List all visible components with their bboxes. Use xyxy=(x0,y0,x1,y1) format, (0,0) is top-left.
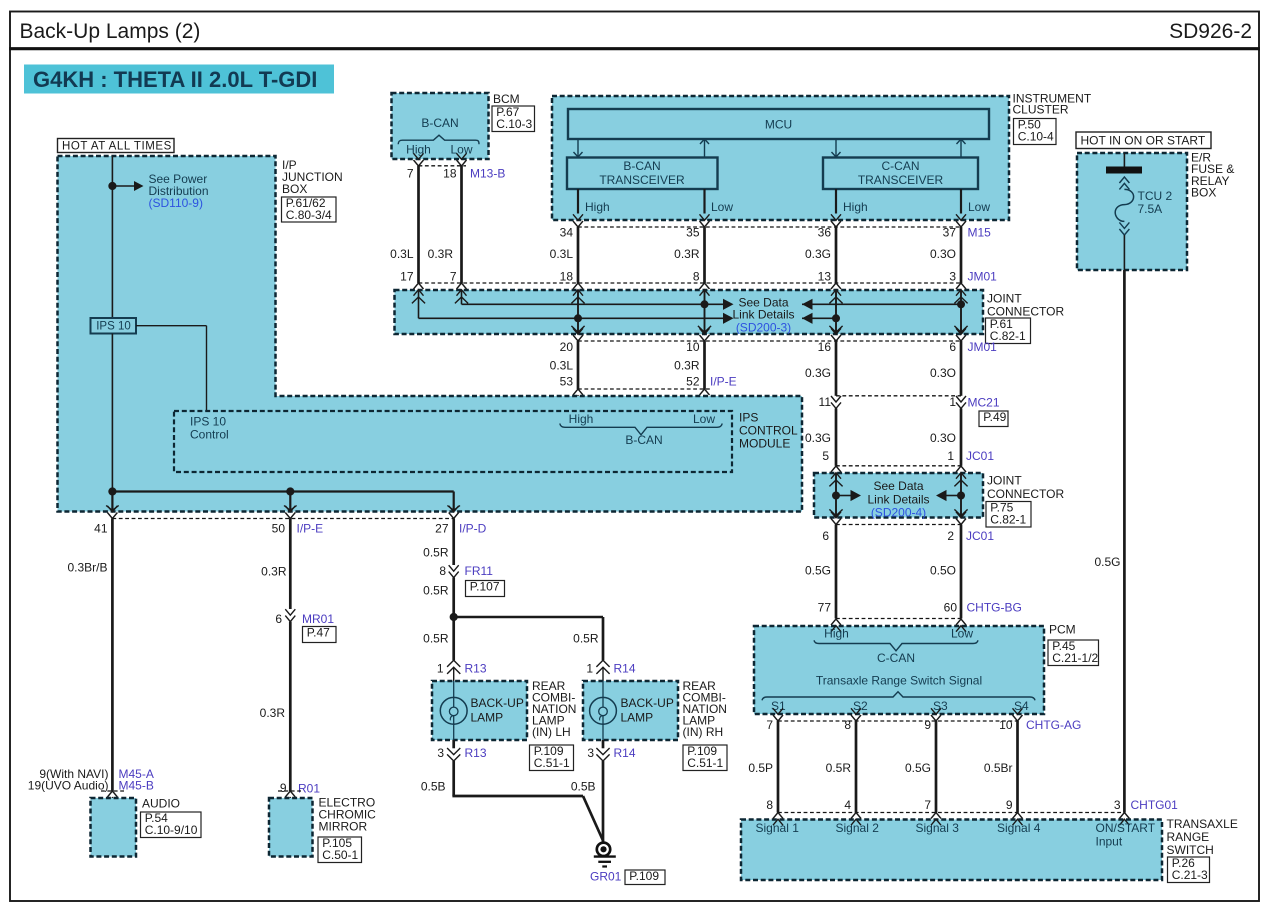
connector R13 crossing pin 1 xyxy=(447,660,460,667)
wire BCM High to JM01 xyxy=(417,166,420,283)
wire drop 27 xyxy=(453,492,455,512)
back-up lamp RH bulb xyxy=(590,697,617,724)
svg-text:10: 10 xyxy=(686,340,700,354)
PCM crossing pin 60 xyxy=(956,619,966,625)
svg-text:1: 1 xyxy=(949,395,956,409)
svg-text:HOT AT ALL TIMES: HOT AT ALL TIMES xyxy=(62,141,172,153)
JM01 junction dot wire 3 bus xyxy=(957,300,965,308)
svg-text:Low: Low xyxy=(450,143,472,157)
svg-text:TRANSCEIVER: TRANSCEIVER xyxy=(599,173,685,187)
svg-text:41: 41 xyxy=(94,522,108,536)
svg-text:0.3O: 0.3O xyxy=(930,247,956,261)
svg-text:(SD200-3): (SD200-3) xyxy=(736,320,791,334)
svg-text:10: 10 xyxy=(999,718,1013,732)
fuse top chevrons xyxy=(1119,177,1129,183)
JC01 crossing pin 5 xyxy=(831,466,841,472)
svg-text:MIRROR: MIRROR xyxy=(319,820,368,834)
wire M15-35 to JM01-8 xyxy=(703,227,706,283)
svg-text:3: 3 xyxy=(587,746,594,760)
arrow MCU to B-CAN transceiver xyxy=(577,139,579,157)
svg-text:Signal 1: Signal 1 xyxy=(756,821,800,835)
svg-text:Back-Up Lamps (2): Back-Up Lamps (2) xyxy=(20,20,201,43)
JM01 junction dot wire 8 xyxy=(701,300,709,308)
svg-text:S1: S1 xyxy=(771,699,786,713)
wire JM01-16 to MC21 xyxy=(835,341,838,396)
svg-text:R13: R13 xyxy=(465,662,487,676)
instrument cluster ref box xyxy=(1014,119,1057,145)
mirror box crossing xyxy=(285,791,295,797)
PCM C-CAN brace xyxy=(814,640,978,651)
svg-text:GR01: GR01 xyxy=(590,870,622,884)
svg-text:35: 35 xyxy=(686,226,700,240)
svg-text:16: 16 xyxy=(818,340,832,354)
svg-text:0.3L: 0.3L xyxy=(550,359,574,373)
svg-text:High: High xyxy=(824,627,849,641)
svg-text:P.107: P.107 xyxy=(470,580,500,594)
svg-text:High: High xyxy=(585,200,610,214)
wire R13 to lamp xyxy=(453,667,455,682)
electro chromic mirror box xyxy=(269,798,313,857)
svg-text:0.3L: 0.3L xyxy=(550,247,574,261)
svg-text:0.3G: 0.3G xyxy=(805,366,831,380)
audio box xyxy=(91,798,137,857)
JM01 through wire 13-16 xyxy=(835,290,837,334)
svg-text:2: 2 xyxy=(947,529,954,543)
arrow B-CAN transceiver to MCU xyxy=(704,139,706,157)
wire C-CAN Low inside cluster xyxy=(960,189,962,214)
connector M15 crossing pin 36 xyxy=(831,214,841,220)
wire FR11 to junction xyxy=(452,578,455,617)
wire MR01 to mirror xyxy=(289,622,292,791)
I/P box bottom crossing 27 xyxy=(449,506,459,512)
wire B-CAN High inside cluster xyxy=(577,189,579,214)
svg-text:6: 6 xyxy=(275,612,282,626)
JM01 internal arrow top bus xyxy=(723,299,734,310)
svg-text:TCU 2: TCU 2 xyxy=(1138,189,1173,203)
svg-text:JM01: JM01 xyxy=(968,270,998,284)
svg-text:CHTG01: CHTG01 xyxy=(1131,798,1179,812)
wire drop 50 xyxy=(289,492,291,512)
fuse bus bar xyxy=(1106,167,1142,174)
wire C-CAN High inside cluster xyxy=(835,189,837,214)
svg-text:R14: R14 xyxy=(614,662,636,676)
svg-text:Low: Low xyxy=(951,627,973,641)
MCU block xyxy=(568,109,989,139)
svg-text:1: 1 xyxy=(586,662,593,676)
JM01 crossing pin 8 xyxy=(700,283,710,289)
svg-text:0.5R: 0.5R xyxy=(573,632,599,646)
connector FR11 crossing pin 8 xyxy=(449,565,459,571)
svg-text:1: 1 xyxy=(947,449,954,463)
JM01 crossing pin 3 xyxy=(956,283,966,289)
svg-text:(SD110-9): (SD110-9) xyxy=(149,196,203,210)
wire JM01-20 to IPS xyxy=(577,341,580,389)
svg-text:7: 7 xyxy=(766,718,773,732)
svg-text:S2: S2 xyxy=(853,699,868,713)
wire R13 to ground xyxy=(452,761,455,796)
IPS crossing pin 53 xyxy=(573,389,583,395)
connector JM01 top dashed line xyxy=(419,282,962,284)
svg-text:C.82-1: C.82-1 xyxy=(990,513,1026,527)
connector R14 crossing pin 3 xyxy=(602,740,605,748)
wire JM01-6 to MC21 xyxy=(960,341,963,396)
svg-text:0.3Br/B: 0.3Br/B xyxy=(67,561,107,575)
svg-text:Low: Low xyxy=(711,200,733,214)
I/P junction box body xyxy=(58,156,803,512)
wire 50 to MR01 xyxy=(289,519,292,610)
wire drop 41 xyxy=(111,492,113,512)
JC01 direction chevrons wire left xyxy=(829,480,842,486)
svg-text:18: 18 xyxy=(443,167,457,181)
JC01 bottom crossing pin 2 xyxy=(956,512,966,518)
svg-text:C.51-1: C.51-1 xyxy=(687,756,723,770)
switch crossing pin 7 xyxy=(931,813,941,819)
JM01 through wire 8-10 xyxy=(704,290,706,334)
JM01 crossing pin 18 xyxy=(573,283,583,289)
svg-text:MR01: MR01 xyxy=(302,612,334,626)
PCM box xyxy=(754,626,1044,714)
JM01 direction chevron wire 8 xyxy=(698,326,711,332)
JM01 junction dot wire 13 bus xyxy=(832,314,840,322)
transaxle range switch box xyxy=(741,820,1162,881)
svg-text:7: 7 xyxy=(924,798,931,812)
HOT AT ALL TIMES label box xyxy=(58,139,175,153)
wire fuse to CHTG01 xyxy=(1123,270,1126,813)
BCM box xyxy=(392,93,489,159)
svg-text:C.50-1: C.50-1 xyxy=(322,848,358,862)
svg-text:17: 17 xyxy=(400,270,414,284)
C-CAN transceiver block xyxy=(823,158,978,190)
wire S1 to switch xyxy=(777,721,780,813)
BCM brace xyxy=(398,135,479,144)
connector R14 crossing pin 1 xyxy=(596,660,609,667)
svg-text:Transaxle Range Switch Signal: Transaxle Range Switch Signal xyxy=(816,674,982,688)
I/P bottom dashed line xyxy=(112,518,453,520)
svg-text:C.80-3/4: C.80-3/4 xyxy=(286,208,332,222)
connector M13-B crossing pin 7 xyxy=(414,153,424,159)
svg-text:(SD200-4): (SD200-4) xyxy=(871,506,926,520)
svg-text:I/P-E: I/P-E xyxy=(297,522,324,536)
ground ref box P.109 xyxy=(625,870,665,885)
JC01 direction chevrons wire right xyxy=(954,480,967,486)
connector M15 crossing pin 37 xyxy=(956,214,966,220)
svg-text:0.5G: 0.5G xyxy=(1094,555,1120,569)
svg-text:0.5Br: 0.5Br xyxy=(984,761,1013,775)
PCM ref box P.45 xyxy=(1048,640,1099,666)
wire R14 to lamp xyxy=(602,667,604,682)
JM01 internal arrow bottom bus xyxy=(723,313,734,324)
wire power to IPS 10 fuse xyxy=(111,156,113,318)
JC01 through wire 5-6 xyxy=(835,473,837,518)
svg-text:8: 8 xyxy=(844,718,851,732)
wire R14 to ground xyxy=(602,761,605,843)
svg-text:CHTG-AG: CHTG-AG xyxy=(1026,718,1081,732)
B-CAN transceiver block xyxy=(567,158,718,190)
svg-text:Link Details: Link Details xyxy=(867,493,929,507)
PCM crossing pin 77 xyxy=(831,619,841,625)
svg-text:IPS 10: IPS 10 xyxy=(190,415,226,429)
svg-text:0.5O: 0.5O xyxy=(930,564,956,578)
HOT IN ON OR START label box xyxy=(1076,132,1211,149)
see power distribution arrow xyxy=(112,185,134,187)
connector JC01 top dashed line xyxy=(836,465,961,467)
lamp LH ref box xyxy=(530,745,574,771)
svg-text:C.21-3: C.21-3 xyxy=(1172,868,1208,882)
svg-text:4: 4 xyxy=(844,798,851,812)
svg-text:C.51-1: C.51-1 xyxy=(534,756,570,770)
svg-text:CONNECTOR: CONNECTOR xyxy=(987,487,1064,501)
svg-text:20: 20 xyxy=(560,340,574,354)
svg-text:9: 9 xyxy=(924,718,931,732)
junction dot 50 xyxy=(286,487,294,495)
svg-text:0.5R: 0.5R xyxy=(423,546,449,560)
wire junction to R13 xyxy=(452,617,455,660)
IPS 10 control inner dashed box xyxy=(174,411,732,472)
JC01 through wire 1-2 xyxy=(960,473,962,518)
connector M13-B crossing pin 18 xyxy=(457,153,467,159)
svg-text:S4: S4 xyxy=(1014,699,1029,713)
arrow C-CAN transceiver to MCU xyxy=(960,139,962,157)
connector I/P-E dashed line at IPS xyxy=(578,388,711,390)
JC01 bottom crossing pin 6 xyxy=(831,512,841,518)
CHTG-AG dashed line xyxy=(778,720,1021,722)
svg-text:AUDIO: AUDIO xyxy=(142,797,180,811)
back-up lamp LH box xyxy=(432,681,527,740)
connector MC21 crossing pin 1 xyxy=(956,396,966,402)
svg-text:0.3R: 0.3R xyxy=(674,359,700,373)
svg-text:0.3L: 0.3L xyxy=(390,247,414,261)
svg-text:CONTROL: CONTROL xyxy=(739,424,798,438)
connector M15 crossing pin 35 xyxy=(700,214,710,220)
svg-text:I/P-D: I/P-D xyxy=(459,522,487,536)
svg-text:See Data: See Data xyxy=(873,479,923,493)
svg-text:53: 53 xyxy=(560,375,574,389)
connector M15 dashed line xyxy=(578,226,961,228)
connector M13-B dashed line xyxy=(419,165,467,167)
JM01 direction chevrons wire 18 xyxy=(571,297,584,303)
header divider line xyxy=(9,47,1260,50)
I/P box bottom crossing 50 xyxy=(285,506,295,512)
JM01 bottom dashed line xyxy=(578,340,961,342)
wire B-CAN Low inside cluster xyxy=(703,189,705,214)
svg-text:LAMP: LAMP xyxy=(471,711,504,725)
lamp RH ref box xyxy=(683,745,727,771)
svg-text:B-CAN: B-CAN xyxy=(625,433,662,447)
switch crossing pin 8 xyxy=(773,813,783,819)
svg-text:8: 8 xyxy=(693,270,700,284)
JC01 arrow from left dot xyxy=(836,495,851,497)
svg-text:High: High xyxy=(406,143,431,157)
switch crossing pin 9 xyxy=(1013,813,1023,819)
arrow MCU to C-CAN transceiver xyxy=(835,139,837,157)
svg-text:37: 37 xyxy=(943,226,957,240)
svg-text:Low: Low xyxy=(693,412,715,426)
svg-text:7.5A: 7.5A xyxy=(1138,202,1163,216)
svg-text:0.3R: 0.3R xyxy=(261,565,287,579)
JC01 bottom dashed line xyxy=(836,524,961,526)
lamp branch horizontal wire xyxy=(454,616,603,619)
svg-text:TRANSAXLE: TRANSAXLE xyxy=(1167,817,1238,831)
svg-text:0.3R: 0.3R xyxy=(260,706,286,720)
JM01 right bottom bus xyxy=(802,317,836,319)
svg-text:LAMP: LAMP xyxy=(621,711,654,725)
JC01 arrow from right dot xyxy=(946,495,961,497)
audio crossing stub dashes xyxy=(101,790,124,792)
svg-text:HOT IN ON OR START: HOT IN ON OR START xyxy=(1081,134,1206,148)
svg-text:CHTG-BG: CHTG-BG xyxy=(967,601,1022,615)
svg-text:ON/START: ON/START xyxy=(1096,821,1156,835)
svg-text:9: 9 xyxy=(1006,798,1013,812)
svg-text:0.5B: 0.5B xyxy=(421,780,446,794)
svg-text:77: 77 xyxy=(818,601,832,615)
svg-text:0.3O: 0.3O xyxy=(930,366,956,380)
svg-text:JC01: JC01 xyxy=(966,449,994,463)
svg-text:Signal 2: Signal 2 xyxy=(836,821,880,835)
JM01 through wire 18-20 xyxy=(577,290,579,334)
svg-text:P.47: P.47 xyxy=(307,626,330,640)
lamp branch right drop xyxy=(602,617,605,660)
svg-text:R14: R14 xyxy=(614,746,636,760)
wire M15-34 to JM01-18 xyxy=(577,227,580,283)
JM01 ref box P.61 xyxy=(986,318,1031,344)
svg-text:B-CAN: B-CAN xyxy=(623,159,660,173)
svg-text:0.5B: 0.5B xyxy=(571,780,596,794)
svg-text:IPS 10: IPS 10 xyxy=(96,321,131,333)
svg-text:5: 5 xyxy=(822,449,829,463)
svg-text:SD926-2: SD926-2 xyxy=(1169,20,1252,43)
switch ref box P.26 xyxy=(1168,857,1210,883)
JM01 right top bus xyxy=(802,303,961,305)
FR11 ref box P.107 xyxy=(466,581,505,597)
svg-text:CLUSTER: CLUSTER xyxy=(1013,103,1069,117)
wire 41 to audio xyxy=(111,519,114,792)
svg-text:0.5G: 0.5G xyxy=(905,761,931,775)
wire 27 to FR11 xyxy=(452,519,455,566)
connector MC21 crossing pin 11 xyxy=(831,396,841,402)
JM01 bottom crossing pin 20 xyxy=(573,328,583,334)
wire JM01-10 to IPS xyxy=(703,341,706,389)
svg-text:BACK-UP: BACK-UP xyxy=(621,696,674,710)
svg-text:FR11: FR11 xyxy=(465,564,494,578)
svg-text:0.3R: 0.3R xyxy=(428,247,454,261)
PCM S1-S4 brace xyxy=(762,692,1035,701)
svg-text:60: 60 xyxy=(944,601,958,615)
svg-text:G4KH : THETA II 2.0L T-GDI: G4KH : THETA II 2.0L T-GDI xyxy=(33,67,317,92)
JM01 crossing pin 17 xyxy=(414,283,424,289)
svg-text:BACK-UP: BACK-UP xyxy=(471,696,524,710)
svg-text:0.3G: 0.3G xyxy=(805,431,831,445)
svg-text:7: 7 xyxy=(407,167,414,181)
svg-text:3: 3 xyxy=(437,746,444,760)
svg-text:C.21-1/2: C.21-1/2 xyxy=(1052,651,1098,665)
svg-text:Input: Input xyxy=(1096,835,1123,849)
audio ref box xyxy=(141,812,202,838)
audio box crossing xyxy=(107,791,117,797)
IPS 10 control branch wire xyxy=(136,325,207,327)
svg-text:JOINT: JOINT xyxy=(987,474,1022,488)
wire JC01-6 to PCM-77 xyxy=(835,525,838,619)
power junction dot xyxy=(108,182,116,190)
svg-text:7: 7 xyxy=(450,270,457,284)
svg-text:High: High xyxy=(569,412,594,426)
svg-text:0.5R: 0.5R xyxy=(423,632,449,646)
junction wire horizontal xyxy=(112,490,453,492)
svg-text:BCM: BCM xyxy=(493,92,520,106)
CHTG01 dashed line xyxy=(778,812,1124,814)
PCM bottom crossing S3 xyxy=(931,708,941,714)
mirror ref box xyxy=(318,837,362,863)
joint connector JM01 box xyxy=(395,290,984,334)
fuse output wire inside box xyxy=(1123,235,1125,270)
svg-text:SWITCH: SWITCH xyxy=(1167,843,1214,857)
svg-text:C-CAN: C-CAN xyxy=(877,651,915,665)
svg-text:B-CAN: B-CAN xyxy=(421,116,458,130)
lamp junction dot xyxy=(450,613,458,621)
fuse bottom chevrons xyxy=(1119,222,1129,228)
I/P box bottom crossing 41 xyxy=(107,506,117,512)
svg-text:C.10-9/10: C.10-9/10 xyxy=(145,823,198,837)
svg-text:Low: Low xyxy=(968,200,990,214)
junction dot 41 xyxy=(108,487,116,495)
svg-text:MODULE: MODULE xyxy=(739,437,790,451)
wire MC21-11 to JC01-5 xyxy=(835,408,838,465)
svg-text:Control: Control xyxy=(190,428,229,442)
svg-text:S3: S3 xyxy=(933,699,948,713)
svg-text:C.10-3: C.10-3 xyxy=(496,117,532,131)
JM01 junction dot wire 18 xyxy=(574,314,582,322)
svg-text:I/P-E: I/P-E xyxy=(710,375,737,389)
connector MC21 dashed line xyxy=(836,395,961,397)
svg-text:1: 1 xyxy=(437,662,444,676)
svg-text:BOX: BOX xyxy=(282,182,307,196)
JM01 bottom crossing pin 16 xyxy=(831,328,841,334)
svg-text:8: 8 xyxy=(439,564,446,578)
svg-text:8: 8 xyxy=(766,798,773,812)
svg-text:34: 34 xyxy=(560,226,574,240)
PCM bottom crossing S2 xyxy=(851,708,861,714)
svg-text:JOINT: JOINT xyxy=(987,292,1022,306)
svg-text:0.5R: 0.5R xyxy=(826,761,852,775)
svg-text:R01: R01 xyxy=(298,782,320,796)
IPS crossing pin 52 xyxy=(700,389,710,395)
back-up lamp RH box xyxy=(583,681,678,740)
svg-text:High: High xyxy=(843,200,868,214)
MR01 ref box P.47 xyxy=(303,627,337,643)
svg-text:PCM: PCM xyxy=(1049,623,1076,637)
wire JC01-2 to PCM-60 xyxy=(960,525,963,619)
wire S2 to switch xyxy=(855,721,858,813)
svg-text:3: 3 xyxy=(1114,798,1121,812)
svg-text:(IN) LH: (IN) LH xyxy=(532,725,571,739)
svg-text:P.49: P.49 xyxy=(983,410,1006,424)
MC21 ref box P.49 xyxy=(979,411,1008,427)
connector R13 crossing pin 3 xyxy=(452,740,455,748)
joint connector JC01 box xyxy=(814,473,983,518)
wire BCM Low to JM01 xyxy=(460,166,463,283)
JM01 direction chevrons wire 3 xyxy=(954,297,967,303)
wire MC21-1 to JC01-1 xyxy=(960,408,963,465)
svg-text:0.5P: 0.5P xyxy=(748,761,773,775)
wire S4 to switch xyxy=(1016,721,1019,813)
E/R fuse and relay box xyxy=(1077,153,1187,270)
JM01 bottom crossing pin 10 xyxy=(700,328,710,334)
engine title bar G4KH xyxy=(24,65,334,94)
svg-text:(IN) RH: (IN) RH xyxy=(683,725,724,739)
svg-text:0.3R: 0.3R xyxy=(674,247,700,261)
svg-text:M13-B: M13-B xyxy=(470,167,505,181)
svg-text:11: 11 xyxy=(819,395,832,409)
JC01 junction dot right xyxy=(957,492,965,500)
